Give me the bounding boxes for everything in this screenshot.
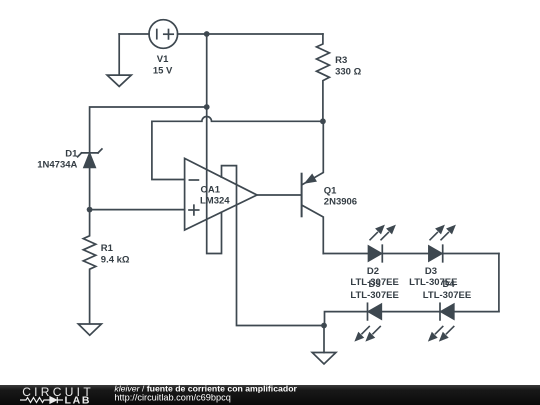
svg-text:9.4 kΩ: 9.4 kΩ xyxy=(101,254,130,265)
wire V1 left lead xyxy=(119,33,149,35)
svg-text:LTL-307EE: LTL-307EE xyxy=(423,290,471,301)
svg-text:LM324: LM324 xyxy=(200,195,230,206)
wire op-amp output xyxy=(257,194,302,196)
svg-text:330 Ω: 330 Ω xyxy=(335,66,361,77)
svg-text:http://circuitlab.com/c69bpcq: http://circuitlab.com/c69bpcq xyxy=(114,393,230,403)
node A D1/R1 junction xyxy=(87,207,93,213)
wire feedback with hop xyxy=(152,116,323,179)
svg-text:D1: D1 xyxy=(65,148,78,159)
transistor Q1 emitter xyxy=(303,121,324,184)
wire to D1 branch xyxy=(90,107,207,153)
svg-text:D2: D2 xyxy=(367,266,379,277)
ground (V1) xyxy=(118,34,120,75)
LED D2 light arrows xyxy=(370,226,395,240)
transistor Q1 base bar xyxy=(301,174,303,217)
svg-text:1N4734A: 1N4734A xyxy=(37,159,77,170)
zener diode D1 xyxy=(82,152,99,154)
wire LED row 2 xyxy=(325,312,499,326)
wire V+ rail top xyxy=(178,33,323,35)
svg-text:LTL-307EE: LTL-307EE xyxy=(350,290,398,301)
resistor R3 xyxy=(317,34,330,121)
wire LED row 1 xyxy=(323,253,499,255)
node ground junction xyxy=(321,323,327,329)
wire D1 to node A xyxy=(89,167,91,209)
svg-text:D4: D4 xyxy=(443,279,456,290)
LED D2 xyxy=(369,246,382,261)
LED D5 light arrows xyxy=(356,326,381,340)
op-amp U1 triangle xyxy=(185,158,257,230)
footer bar xyxy=(0,385,540,405)
wire V+ drop xyxy=(206,34,208,107)
LED D3 xyxy=(429,246,442,261)
logo schematic xyxy=(20,397,63,403)
svg-text:D3: D3 xyxy=(425,266,437,277)
svg-text:R3: R3 xyxy=(335,55,347,66)
svg-text:OA1: OA1 xyxy=(201,184,221,195)
node D1 branch junction xyxy=(204,104,210,110)
svg-text:R1: R1 xyxy=(101,243,114,254)
svg-text:D5: D5 xyxy=(369,279,382,290)
svg-text:15 V: 15 V xyxy=(153,65,173,76)
wire bottom to ground xyxy=(323,326,325,353)
op-amp plus sign xyxy=(189,209,199,211)
ground (R1) xyxy=(78,324,101,335)
transistor Q1 collector xyxy=(303,206,324,254)
ground (bottom) xyxy=(312,353,336,365)
voltage source V1 xyxy=(149,20,178,49)
wire node A to op-amp + input xyxy=(90,209,185,211)
svg-text:V1: V1 xyxy=(157,54,169,65)
LED D5 xyxy=(368,304,381,319)
node V+ rail junction xyxy=(204,31,210,37)
svg-text:2N3906: 2N3906 xyxy=(324,197,357,208)
svg-text:Q1: Q1 xyxy=(324,186,337,197)
wire V- supply route xyxy=(207,107,222,254)
resistor R1 xyxy=(83,210,96,324)
LED D4 light arrows xyxy=(429,326,454,340)
wire right side xyxy=(498,254,500,312)
op-amp minus sign xyxy=(189,179,198,181)
node R3/emitter/feedback junction xyxy=(320,118,326,124)
LED D3 light arrows xyxy=(430,226,455,240)
LED D4 xyxy=(441,304,454,319)
wire V+ supply stub xyxy=(222,166,325,326)
svg-text:LAB: LAB xyxy=(65,394,92,405)
